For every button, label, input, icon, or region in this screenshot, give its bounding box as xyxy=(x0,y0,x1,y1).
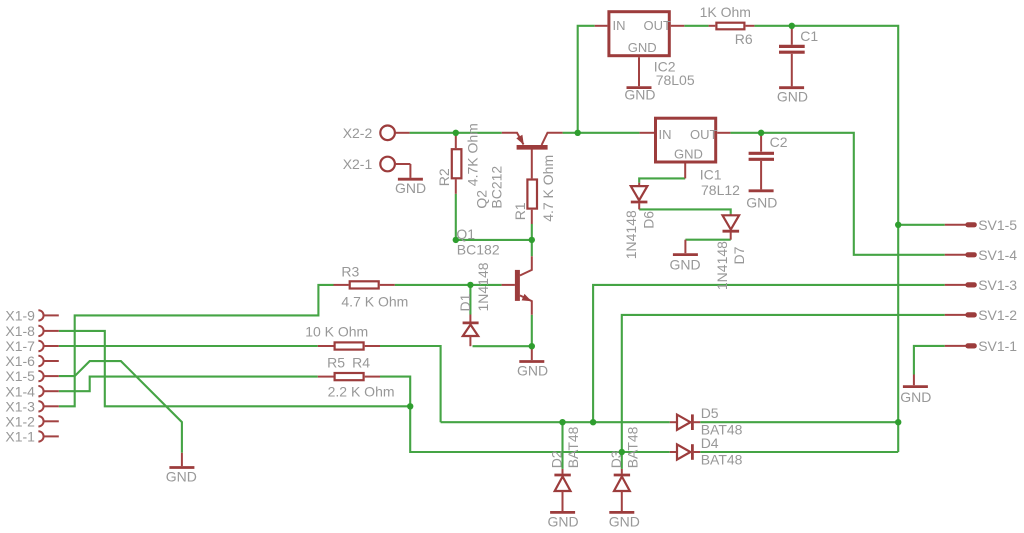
svg-text:78L12: 78L12 xyxy=(701,182,740,198)
connector pin SV1-4 xyxy=(945,247,1018,263)
svg-text:4.7 K Ohm: 4.7 K Ohm xyxy=(341,294,408,310)
IC1 78L12 regulator xyxy=(640,118,741,198)
svg-text:BAT48: BAT48 xyxy=(565,426,581,468)
node at R2 top / X2-2 xyxy=(453,130,459,136)
svg-text:GND: GND xyxy=(517,362,548,378)
svg-text:R3: R3 xyxy=(341,263,359,279)
connector pin X1-5 xyxy=(5,368,58,384)
wire: D2 top from line1 xyxy=(561,422,563,469)
svg-text:C1: C1 xyxy=(800,28,818,44)
svg-text:X2-2: X2-2 xyxy=(343,125,373,141)
diode D5 BAT48 xyxy=(670,405,743,438)
svg-text:GND: GND xyxy=(166,469,197,485)
svg-text:SV1-1: SV1-1 xyxy=(978,338,1017,354)
svg-text:2.2 K Ohm: 2.2 K Ohm xyxy=(328,384,395,400)
wire: line2 node up to SV1-2 xyxy=(622,315,945,452)
svg-text:R4: R4 xyxy=(352,354,370,370)
ground under C2 xyxy=(746,191,777,211)
ground on X1-5 net xyxy=(166,453,197,485)
wire: node down to line2 xyxy=(410,406,622,452)
svg-text:X1-7: X1-7 xyxy=(5,338,35,354)
node at R6 / C1 xyxy=(789,23,795,29)
wire: right node down to line2 end xyxy=(897,422,899,452)
connector pin X2-2 xyxy=(343,125,410,141)
node at R2 bottom xyxy=(453,237,459,243)
svg-text:X2-1: X2-1 xyxy=(343,156,373,172)
wire: X1-7 to R4 left xyxy=(59,345,318,347)
svg-text:X1-1: X1-1 xyxy=(5,429,35,445)
svg-text:X1-4: X1-4 xyxy=(5,383,35,399)
svg-text:IN: IN xyxy=(659,127,672,142)
svg-text:X1-6: X1-6 xyxy=(5,353,35,369)
svg-text:BC182: BC182 xyxy=(457,242,500,258)
connector pin X1-8 xyxy=(5,323,58,339)
node at D2 on line1 xyxy=(559,419,565,425)
svg-text:SV1-3: SV1-3 xyxy=(978,277,1017,293)
node at R5 / X1-8 line xyxy=(407,403,413,409)
svg-text:GND: GND xyxy=(670,256,701,272)
ground under IC2 xyxy=(624,87,655,103)
wire: right rail down to bottom node xyxy=(897,225,899,422)
wire: D7 cathode to GND xyxy=(685,239,730,241)
capacitor C2 xyxy=(749,133,788,190)
svg-text:D7: D7 xyxy=(731,246,747,264)
wire: R3 left to X1-3 xyxy=(59,285,334,406)
connector pin X1-1 xyxy=(5,429,58,445)
svg-text:BC212: BC212 xyxy=(488,166,504,209)
connector pin SV1-1 xyxy=(945,338,1018,354)
wire: IC1 GND to D6 xyxy=(639,178,685,182)
wire: D3 top from line2 xyxy=(621,452,623,469)
svg-text:D6: D6 xyxy=(641,211,657,229)
connector pin X2-1 xyxy=(343,156,411,172)
svg-text:IN: IN xyxy=(613,18,626,33)
svg-text:1N4148: 1N4148 xyxy=(714,241,730,290)
connector pin SV1-2 xyxy=(945,307,1018,323)
wire: R6 to node C1 xyxy=(754,25,791,27)
svg-text:Q1: Q1 xyxy=(456,226,475,242)
svg-text:R5: R5 xyxy=(327,354,345,370)
wire: R4 right down to line1 xyxy=(380,346,441,422)
svg-text:X1-8: X1-8 xyxy=(5,323,35,339)
svg-text:GND: GND xyxy=(746,195,777,211)
resistor R2 4.7K Ohm xyxy=(436,123,481,194)
wire: line1 node up to SV1-3 xyxy=(593,285,945,422)
ground under D3 xyxy=(609,512,640,529)
ground under SV1-1 xyxy=(900,375,931,406)
ground at X2-1 xyxy=(395,164,426,196)
connector pin X1-2 xyxy=(5,413,58,429)
svg-text:OUT: OUT xyxy=(644,18,672,33)
connector pin X1-4 xyxy=(5,383,58,399)
node at IC1 OUT / C2 xyxy=(758,130,764,136)
IC2 78L05 regulator xyxy=(595,12,695,89)
svg-text:BAT48: BAT48 xyxy=(624,426,640,468)
diode D1 1N4148 xyxy=(457,262,491,346)
wire: R5 right down to node xyxy=(380,377,410,407)
svg-text:SV1-2: SV1-2 xyxy=(978,307,1017,323)
wire: D1 bottom to emitter node xyxy=(473,345,532,347)
node at R1 bottom / Q1 collector xyxy=(529,237,535,243)
svg-text:1N4148: 1N4148 xyxy=(623,210,639,259)
transistor Q1 BC182 (NPN) xyxy=(456,226,531,315)
wire: Q2 collector to node xyxy=(563,132,578,134)
svg-text:R2: R2 xyxy=(436,168,452,186)
svg-text:78L05: 78L05 xyxy=(656,72,695,88)
svg-text:GND: GND xyxy=(900,389,931,405)
ground under C1 xyxy=(777,88,808,105)
connector pin SV1-3 xyxy=(945,277,1018,293)
svg-text:GND: GND xyxy=(777,88,808,104)
diode D6 1N4148 xyxy=(623,183,657,260)
wire: Q1 emitter down to node xyxy=(531,315,533,346)
node at Q1 emitter / D1 / GND xyxy=(529,343,535,349)
diode D7 1N4148 xyxy=(714,214,747,290)
wire: R1 bottom to node xyxy=(531,224,533,240)
wire: node C1 right then down right edge xyxy=(792,26,898,225)
wire: X1-4 up and to R5 left xyxy=(59,377,318,392)
svg-text:D4: D4 xyxy=(701,435,719,451)
wire: base node down to D1 xyxy=(469,285,471,315)
svg-text:GND: GND xyxy=(624,87,655,103)
svg-text:X1-3: X1-3 xyxy=(5,398,35,414)
svg-text:1K Ohm: 1K Ohm xyxy=(700,4,751,20)
wire: X1-5 diagonal run to GND xyxy=(59,361,182,453)
ground under D7 xyxy=(670,240,701,273)
svg-text:Q2: Q2 xyxy=(474,190,490,209)
wire: SV1-1 stub to corner xyxy=(914,346,945,375)
svg-text:IC1: IC1 xyxy=(700,166,722,182)
connector pin X1-6 xyxy=(5,353,58,369)
svg-text:SV1-5: SV1-5 xyxy=(978,217,1017,233)
svg-text:GND: GND xyxy=(628,40,657,55)
wire: IC2 OUT to R6 xyxy=(684,25,708,27)
svg-text:D2: D2 xyxy=(549,450,565,468)
resistor R3 4.7 K Ohm xyxy=(334,263,409,309)
wire: X2-2 to Q2 emitter xyxy=(410,132,502,134)
wire: D6 cathode to D7 xyxy=(639,209,731,214)
svg-text:X1-2: X1-2 xyxy=(5,413,35,429)
svg-text:SV1-4: SV1-4 xyxy=(978,247,1017,263)
node at Q2 collector / 5V rail xyxy=(575,130,581,136)
wire: 5V rail top-left into IC2 IN xyxy=(578,26,595,133)
svg-text:GND: GND xyxy=(548,514,579,530)
svg-text:GND: GND xyxy=(674,147,703,162)
capacitor C1 xyxy=(779,26,818,87)
node at SV1-5 branch xyxy=(895,222,901,228)
wire: node to IC1 IN xyxy=(578,132,640,134)
svg-text:10 K Ohm: 10 K Ohm xyxy=(305,323,368,339)
connector pin X1-3 xyxy=(5,398,58,414)
ground under D2 xyxy=(548,512,579,529)
wire: D5 cathode to right node xyxy=(700,421,898,423)
connector pin X1-7 xyxy=(5,338,58,354)
svg-text:4.7 K Ohm: 4.7 K Ohm xyxy=(540,155,556,222)
svg-text:GND: GND xyxy=(395,180,426,196)
resistor R1 4.7 K Ohm xyxy=(512,155,556,224)
svg-text:1N4148: 1N4148 xyxy=(475,262,491,311)
svg-text:R1: R1 xyxy=(512,202,528,220)
svg-text:C2: C2 xyxy=(770,134,788,150)
resistor R5 2.2 K Ohm xyxy=(318,354,395,399)
wire: node C2 to SV1-4 xyxy=(761,133,945,255)
wire: R3 right to base node xyxy=(395,284,471,286)
diode D4 BAT48 xyxy=(670,435,743,468)
node at right rail bottom xyxy=(895,419,901,425)
svg-text:X1-9: X1-9 xyxy=(5,308,35,324)
node at D3 / SV1-2 riser on line2 xyxy=(619,449,625,455)
svg-text:BAT48: BAT48 xyxy=(701,451,743,467)
connector pin SV1-5 xyxy=(945,217,1018,233)
wire: X1-8 down and along to node R5 xyxy=(59,331,410,406)
wire: line2 to D4 xyxy=(622,451,670,453)
svg-text:X1-5: X1-5 xyxy=(5,368,35,384)
svg-text:R6: R6 xyxy=(735,31,753,47)
svg-text:4.7K Ohm: 4.7K Ohm xyxy=(465,123,481,186)
resistor R4 10 K Ohm xyxy=(305,323,380,370)
wire: node R2 to node R1/Q1 xyxy=(456,239,532,241)
svg-text:GND: GND xyxy=(609,514,640,530)
svg-text:OUT: OUT xyxy=(690,127,718,142)
transistor Q2 BC212 (PNP) xyxy=(474,133,563,209)
diode D2 BAT48 xyxy=(549,426,582,511)
node at SV1-3 riser on line1 xyxy=(590,419,596,425)
svg-text:D1: D1 xyxy=(457,293,473,311)
svg-text:D5: D5 xyxy=(701,405,719,421)
diode D3 BAT48 xyxy=(608,426,641,511)
ground under Q1 emitter xyxy=(517,346,548,378)
wire: R2 bottom to node xyxy=(455,194,457,240)
wire: SV1-5 branch xyxy=(898,224,945,226)
node at Q1 base / D1 xyxy=(467,282,473,288)
wire: IC1 OUT to node C2 xyxy=(730,132,761,134)
wire: base node to Q1 base xyxy=(470,284,501,286)
connector pin X1-9 xyxy=(5,308,58,324)
wire: line1 to D5 xyxy=(441,421,670,423)
wire: D4 cathode to right xyxy=(700,451,898,453)
resistor R6 1K Ohm xyxy=(700,4,755,47)
wire: node down to Q1 collector xyxy=(531,240,533,256)
